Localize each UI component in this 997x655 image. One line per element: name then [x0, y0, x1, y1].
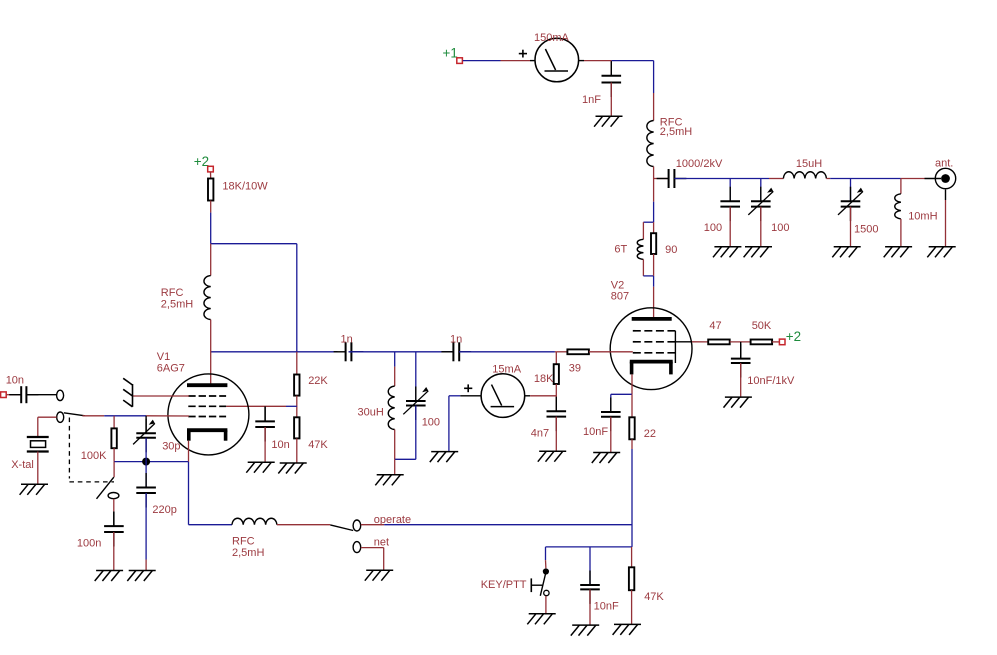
svg-text:X-tal: X-tal: [11, 459, 34, 471]
svg-text:V1: V1: [157, 351, 170, 363]
svg-text:1n: 1n: [341, 334, 353, 346]
svg-text:22: 22: [644, 428, 656, 440]
svg-text:+2: +2: [786, 329, 801, 344]
svg-text:1000/2kV: 1000/2kV: [676, 158, 723, 170]
svg-text:10nF: 10nF: [594, 601, 619, 613]
svg-text:+1: +1: [443, 46, 458, 61]
svg-text:100K: 100K: [81, 450, 107, 462]
svg-text:6T: 6T: [614, 244, 627, 256]
svg-text:10n: 10n: [271, 439, 289, 451]
svg-text:220p: 220p: [152, 504, 176, 516]
svg-text:50K: 50K: [752, 320, 772, 332]
svg-text:+2: +2: [194, 154, 209, 169]
svg-text:100n: 100n: [77, 538, 101, 550]
svg-text:6AG7: 6AG7: [157, 363, 185, 375]
svg-text:15mA: 15mA: [492, 363, 521, 375]
svg-text:10mH: 10mH: [908, 211, 937, 223]
svg-text:100: 100: [422, 417, 440, 429]
svg-text:2,5mH: 2,5mH: [660, 126, 692, 138]
svg-text:4n7: 4n7: [531, 428, 549, 440]
svg-text:22K: 22K: [308, 375, 328, 387]
svg-text:1500: 1500: [854, 224, 878, 236]
svg-text:2,5mH: 2,5mH: [161, 299, 193, 311]
svg-text:30p: 30p: [162, 441, 180, 453]
svg-text:10nF/1kV: 10nF/1kV: [747, 375, 795, 387]
svg-text:net: net: [374, 537, 389, 549]
svg-text:10nF: 10nF: [583, 426, 608, 438]
svg-text:47K: 47K: [308, 439, 328, 451]
svg-text:47K: 47K: [644, 591, 664, 603]
svg-text:47: 47: [709, 320, 721, 332]
svg-text:15uH: 15uH: [796, 158, 822, 170]
svg-text:10n: 10n: [6, 375, 24, 387]
svg-text:100: 100: [771, 222, 789, 234]
svg-text:18K: 18K: [534, 373, 554, 385]
svg-text:operate: operate: [374, 514, 411, 526]
svg-text:ant.: ant.: [935, 158, 953, 170]
svg-text:1n: 1n: [450, 334, 462, 346]
svg-text:30uH: 30uH: [358, 406, 384, 418]
svg-text:RFC: RFC: [232, 536, 255, 548]
svg-text:807: 807: [611, 290, 629, 302]
svg-text:100: 100: [704, 222, 722, 234]
svg-text:18K/10W: 18K/10W: [222, 180, 268, 192]
svg-text:39: 39: [569, 363, 581, 375]
svg-text:KEY/PTT: KEY/PTT: [481, 579, 527, 591]
svg-text:150mA: 150mA: [534, 32, 570, 44]
svg-text:90: 90: [665, 244, 677, 256]
svg-text:2,5mH: 2,5mH: [232, 547, 264, 559]
svg-text:1nF: 1nF: [582, 94, 601, 106]
svg-text:RFC: RFC: [161, 287, 184, 299]
